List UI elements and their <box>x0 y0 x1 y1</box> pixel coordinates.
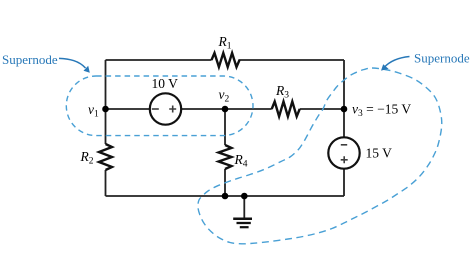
wire 10V source to v2 <box>181 108 225 110</box>
V1 minus sign <box>152 108 159 110</box>
supernode dashed stadium (left) <box>66 76 253 136</box>
svg-text:v2: v2 <box>219 87 230 105</box>
wire top horizontal right of R1 <box>239 59 345 61</box>
svg-text:R1: R1 <box>218 34 232 52</box>
wire ground stem <box>243 196 245 218</box>
wire v2 vertical lower <box>224 169 226 196</box>
wire right vertical upper <box>343 60 345 137</box>
resistor R3 <box>272 102 300 117</box>
junction dot R4-bottom <box>222 193 229 200</box>
V2 plus sign <box>341 156 348 163</box>
wire left vertical upper <box>105 60 107 144</box>
V1 plus sign <box>169 106 176 113</box>
wire right vertical lower <box>343 169 345 196</box>
leader arrow left <box>59 58 86 68</box>
svg-text:15 V: 15 V <box>366 146 393 161</box>
node v3 dot <box>341 106 348 113</box>
resistor R4 <box>219 145 232 169</box>
ground symbol <box>233 219 252 227</box>
node v2 dot <box>222 106 229 113</box>
wire left vertical lower <box>105 170 107 196</box>
resistor R1 <box>212 53 240 67</box>
svg-text:v3 = −15 V: v3 = −15 V <box>352 102 411 120</box>
leader arrow right <box>384 57 410 68</box>
wire bottom horizontal <box>106 195 345 197</box>
wire v2 to R3 <box>225 108 272 110</box>
junction dot ground-bottom <box>241 193 248 200</box>
resistor R2 <box>99 144 112 170</box>
wire v2 vertical upper <box>224 109 226 145</box>
supernode dashed loop (right) <box>198 68 442 244</box>
V2 minus sign <box>341 144 347 146</box>
wire v1 to 10V source <box>106 108 150 110</box>
svg-text:10 V: 10 V <box>152 76 179 91</box>
svg-text:Supernode: Supernode <box>414 51 470 66</box>
svg-text:Supernode: Supernode <box>2 52 58 67</box>
svg-text:v1: v1 <box>88 102 99 120</box>
svg-text:R2: R2 <box>80 149 94 167</box>
node v1 dot <box>102 106 109 113</box>
voltage source V1 10V circle <box>150 93 181 124</box>
svg-text:R4: R4 <box>234 152 248 170</box>
svg-text:R3: R3 <box>275 83 289 101</box>
wire R3 to v3 <box>300 108 344 110</box>
voltage source V2 15V circle <box>328 137 359 168</box>
wire top horizontal left of R1 <box>106 59 212 61</box>
